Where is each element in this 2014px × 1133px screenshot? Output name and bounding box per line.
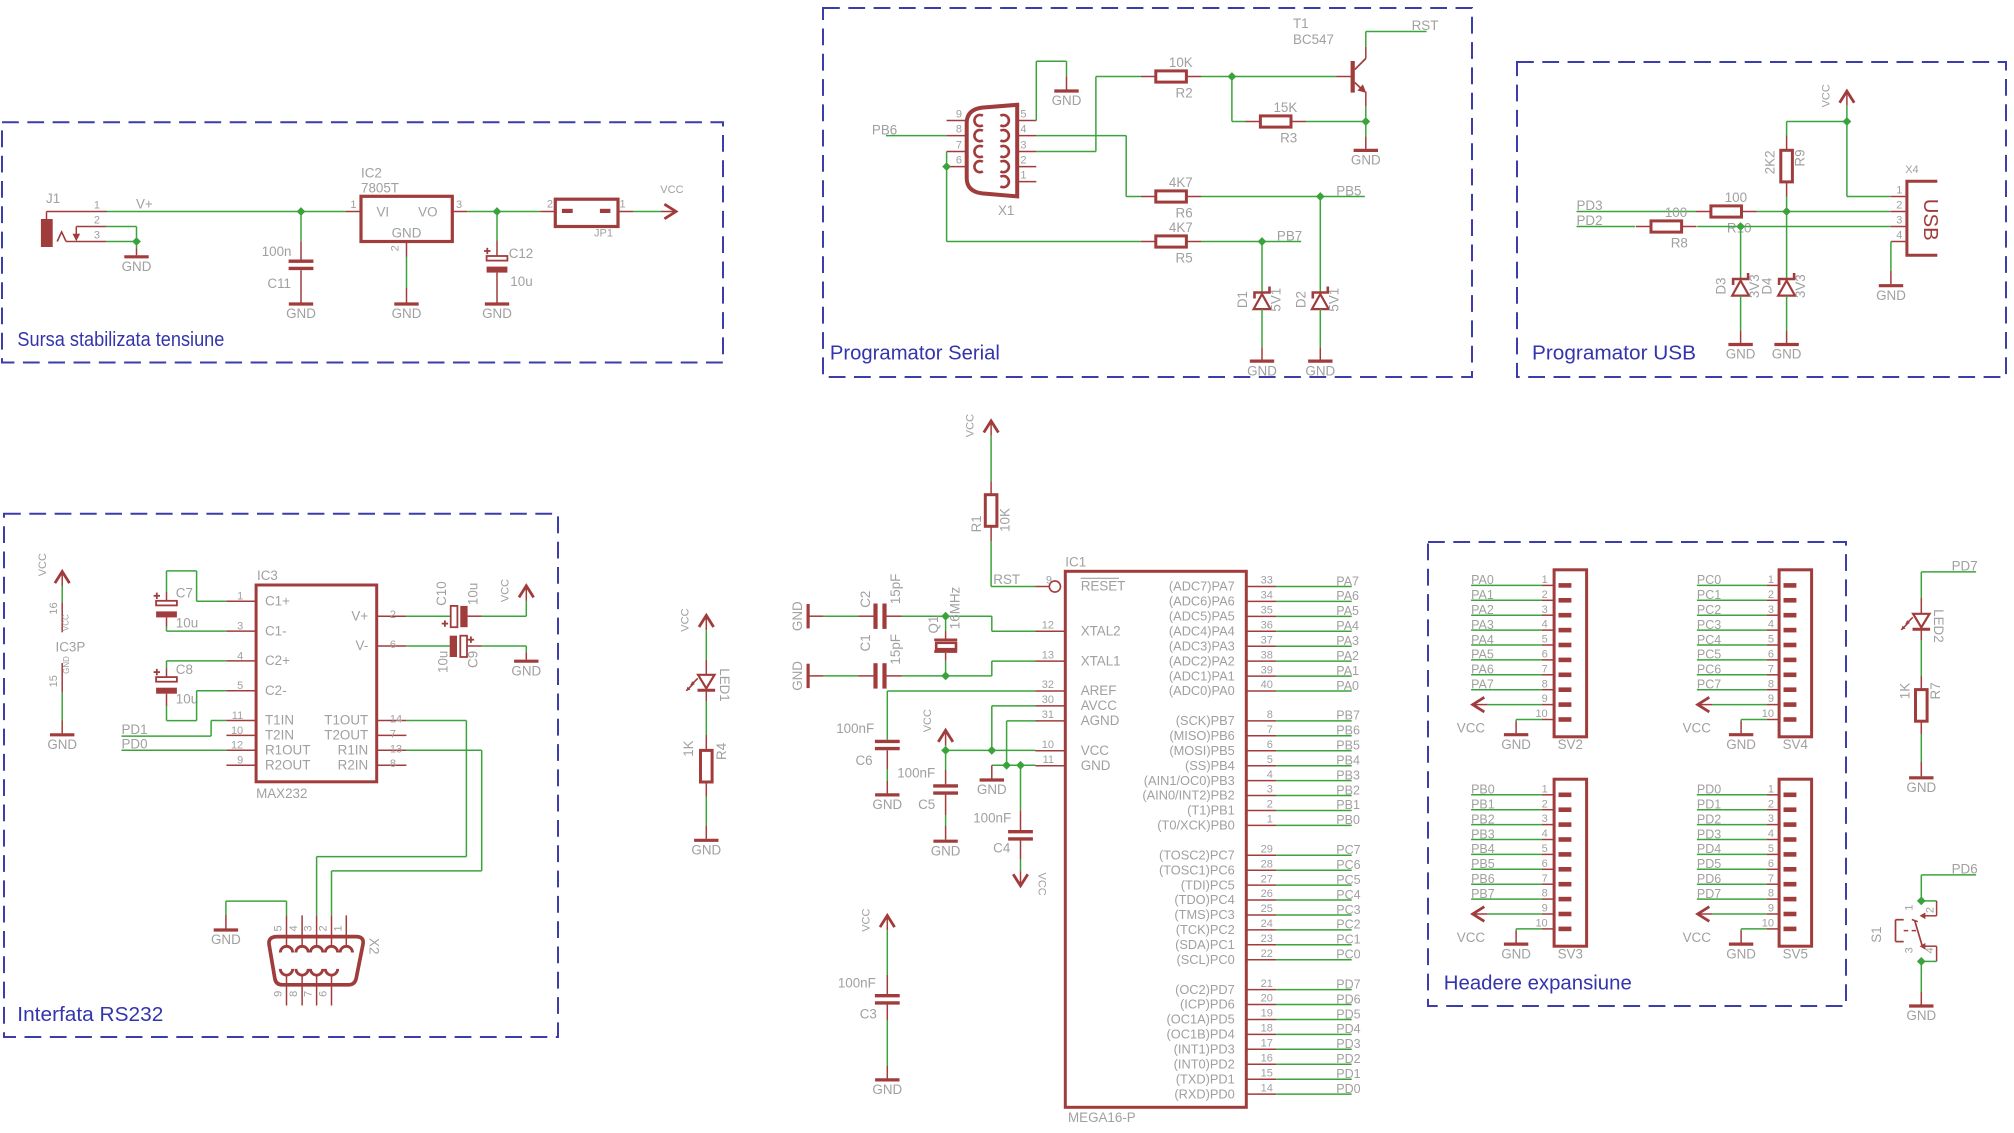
wire R9 top to VCC node (1787, 122, 1847, 137)
IC2 7805T voltage regulator (346, 166, 467, 252)
svg-text:3: 3 (1768, 813, 1774, 825)
svg-text:5: 5 (1267, 754, 1273, 766)
svg-text:PC2: PC2 (1336, 918, 1360, 932)
net label PA2 (IC1) (1336, 649, 1359, 663)
wire D2 to GND (1319, 309, 1321, 360)
wire PD2 to R8 (1577, 226, 1636, 228)
svg-text:C4: C4 (993, 840, 1011, 855)
junction PB7/D1 (1258, 237, 1267, 246)
svg-text:GND: GND (1501, 737, 1531, 752)
svg-text:15K: 15K (1273, 100, 1297, 115)
svg-text:SV4: SV4 (1783, 737, 1809, 752)
svg-text:PC0: PC0 (1336, 948, 1360, 962)
svg-text:15pF: 15pF (888, 634, 903, 665)
svg-text:23: 23 (1261, 933, 1273, 945)
svg-text:(ADC3)PA3: (ADC3)PA3 (1169, 638, 1235, 653)
svg-text:100nF: 100nF (836, 721, 874, 736)
svg-text:GND: GND (1726, 737, 1756, 752)
svg-text:1: 1 (1768, 783, 1774, 795)
svg-text:Programator Serial: Programator Serial (830, 342, 1000, 365)
svg-text:PB0: PB0 (1336, 813, 1360, 827)
svg-text:D4: D4 (1760, 277, 1775, 295)
power VCC (R1 pullup) (965, 414, 999, 437)
svg-text:GND: GND (1906, 780, 1936, 795)
svg-text:PB5: PB5 (1336, 739, 1360, 753)
net label PB0 (SV3) (1471, 783, 1495, 797)
svg-text:6: 6 (390, 639, 396, 651)
svg-text:GND: GND (392, 225, 422, 240)
svg-text:PB2: PB2 (1471, 812, 1495, 826)
svg-text:R4: R4 (714, 742, 729, 760)
IC3P power symbol (37, 553, 85, 733)
svg-text:7: 7 (390, 728, 396, 740)
wire net PC4 (IC1) (1276, 899, 1352, 901)
svg-text:PB1: PB1 (1471, 798, 1495, 812)
svg-text:(TXD)PD1: (TXD)PD1 (1176, 1071, 1235, 1086)
svg-text:10: 10 (1042, 739, 1054, 751)
svg-text:4: 4 (1924, 947, 1936, 953)
svg-text:T2IN: T2IN (265, 728, 294, 743)
svg-text:3: 3 (303, 925, 315, 931)
wire PB6 to X1 pin8 (886, 135, 947, 137)
svg-text:VCC: VCC (500, 579, 512, 602)
svg-text:PB3: PB3 (1471, 827, 1495, 841)
svg-text:26: 26 (1261, 888, 1273, 900)
svg-text:C8: C8 (176, 662, 193, 677)
svg-text:PD5: PD5 (1697, 857, 1721, 871)
junction V+ / C11 (297, 207, 306, 216)
svg-text:VCC: VCC (37, 553, 49, 576)
svg-text:PD2: PD2 (1336, 1052, 1360, 1066)
diode D1 5V1 zener (1235, 287, 1283, 312)
net label PC3 (IC1) (1336, 903, 1360, 917)
svg-text:1: 1 (1267, 814, 1273, 826)
wire AVCC net (992, 706, 1036, 751)
svg-text:(ICP)PD6: (ICP)PD6 (1180, 997, 1235, 1012)
svg-text:R7: R7 (1928, 682, 1943, 699)
net label PD1 (122, 722, 148, 737)
svg-text:8: 8 (956, 124, 962, 136)
net label PB0 (IC1) (1336, 813, 1360, 827)
svg-text:3: 3 (456, 199, 462, 211)
ground GND (C2, rotated) (790, 601, 823, 631)
svg-text:(T1)PB1: (T1)PB1 (1187, 803, 1235, 818)
svg-text:9: 9 (1542, 693, 1548, 705)
ground GND (C5) (931, 841, 961, 858)
wire net PB3 (SV3) (1471, 839, 1542, 841)
svg-text:C10: C10 (434, 581, 449, 606)
svg-text:AREF: AREF (1081, 683, 1117, 698)
svg-text:S1: S1 (1869, 926, 1884, 942)
net label PC4 (SV4) (1697, 633, 1721, 647)
resistor R5 4K7 (1141, 220, 1202, 265)
svg-text:4: 4 (1020, 124, 1026, 136)
svg-text:R6: R6 (1176, 206, 1193, 221)
svg-text:8: 8 (1542, 678, 1548, 690)
svg-text:SV5: SV5 (1783, 947, 1808, 962)
ground GND (SV4) (1726, 722, 1756, 752)
section box: Programator Serial (823, 8, 1472, 377)
wire X2 pin5 to GND (226, 901, 287, 915)
svg-text:R2IN: R2IN (338, 757, 369, 772)
svg-text:VCC: VCC (1081, 743, 1110, 758)
svg-text:(TOSC1)PC6: (TOSC1)PC6 (1159, 862, 1235, 877)
svg-text:GND: GND (392, 306, 422, 321)
wire net PC7 (IC1) (1276, 854, 1352, 856)
connector J1 power jack (41, 191, 107, 247)
wire net PB4 (SV3) (1471, 853, 1542, 855)
svg-text:GND: GND (691, 843, 721, 858)
net label PC5 (IC1) (1336, 873, 1360, 887)
svg-text:(TCK)PC2: (TCK)PC2 (1176, 922, 1235, 937)
svg-text:PC6: PC6 (1336, 858, 1360, 872)
net label PD5 (SV5) (1697, 857, 1721, 871)
svg-text:PC0: PC0 (1697, 573, 1721, 587)
svg-text:PB6: PB6 (1336, 724, 1360, 738)
wire R3 to emitter junction (1306, 121, 1366, 123)
svg-text:GND: GND (931, 843, 961, 858)
svg-text:R1IN: R1IN (338, 743, 369, 758)
net label PA7 (SV2) (1471, 678, 1494, 692)
wire T1 emitter to GND (1365, 106, 1367, 136)
svg-text:3: 3 (1542, 813, 1548, 825)
svg-text:PD1: PD1 (1336, 1067, 1360, 1081)
svg-text:1: 1 (1542, 783, 1548, 795)
wire net PC0 (SV4) (1697, 584, 1767, 586)
svg-text:C3: C3 (860, 1007, 877, 1022)
svg-text:MAX232: MAX232 (256, 786, 307, 801)
svg-text:7: 7 (1267, 724, 1273, 736)
svg-text:17: 17 (1261, 1038, 1273, 1050)
net label PB6 (872, 122, 897, 137)
wire R9 bottom to PD3 junction (1786, 196, 1788, 211)
ground GND (D4) (1772, 345, 1802, 362)
svg-text:2: 2 (1924, 907, 1936, 913)
svg-text:VO: VO (418, 205, 437, 220)
svg-text:PC3: PC3 (1336, 903, 1360, 917)
wire R6 to PB5 (1201, 196, 1364, 198)
svg-text:PD5: PD5 (1336, 1007, 1360, 1021)
net label PC5 (SV4) (1697, 648, 1721, 662)
svg-text:(SDA)PC1: (SDA)PC1 (1175, 937, 1235, 952)
svg-text:PB3: PB3 (1336, 768, 1360, 782)
net label PD4 (SV5) (1697, 842, 1721, 856)
junction crystal bottom (941, 672, 950, 681)
net label PB3 (SV3) (1471, 827, 1495, 841)
net label PD7 (IC1) (1336, 977, 1360, 991)
capacitor C12 10u (484, 212, 533, 303)
svg-text:PA2: PA2 (1336, 649, 1359, 663)
svg-text:7: 7 (1542, 663, 1548, 675)
svg-text:12: 12 (231, 740, 243, 752)
svg-text:16: 16 (1261, 1053, 1273, 1065)
svg-text:6: 6 (1768, 858, 1774, 870)
wire XTAL1 net (946, 661, 1036, 676)
svg-text:GND: GND (977, 782, 1007, 797)
svg-text:T1IN: T1IN (265, 713, 294, 728)
svg-text:PD3: PD3 (1697, 827, 1721, 841)
junction VCC/AVCC (987, 746, 996, 755)
svg-text:V+: V+ (351, 608, 368, 623)
ground GND (SV2) (1501, 722, 1531, 752)
svg-text:(AIN0/INT2)PB2: (AIN0/INT2)PB2 (1142, 788, 1234, 803)
net label PD6 (IC1) (1336, 992, 1360, 1006)
svg-text:5: 5 (273, 925, 285, 931)
svg-text:8: 8 (288, 991, 300, 997)
svg-text:3: 3 (1020, 140, 1026, 152)
diode D4 3V3 zener (1760, 273, 1808, 298)
transistor T1 BC547 (1293, 16, 1366, 106)
net label PB7 (SV3) (1471, 887, 1495, 901)
svg-text:PD1: PD1 (122, 722, 148, 737)
svg-text:GND: GND (790, 661, 805, 691)
svg-text:GND: GND (1501, 946, 1531, 961)
svg-text:IC3P: IC3P (56, 639, 86, 654)
svg-text:(AIN1/OC0)PB3: (AIN1/OC0)PB3 (1144, 773, 1235, 788)
net label PB2 (IC1) (1336, 783, 1360, 797)
svg-text:10u: 10u (176, 615, 198, 630)
LED LED2 (1901, 598, 1945, 643)
svg-text:X1: X1 (998, 203, 1014, 218)
svg-text:PB7: PB7 (1336, 709, 1360, 723)
svg-text:V+: V+ (136, 197, 153, 212)
svg-text:VCC: VCC (922, 709, 934, 732)
net label PB4 (SV3) (1471, 842, 1495, 856)
svg-text:GND: GND (1876, 288, 1906, 303)
svg-text:2: 2 (318, 925, 330, 931)
svg-text:100: 100 (1725, 190, 1747, 205)
svg-text:10: 10 (1535, 918, 1547, 930)
svg-text:7: 7 (303, 991, 315, 997)
net label PD6 (SV5) (1697, 872, 1721, 886)
wire net PB7 (IC1) (1276, 720, 1352, 722)
svg-text:PA0: PA0 (1336, 679, 1359, 693)
svg-text:37: 37 (1261, 634, 1273, 646)
svg-text:2: 2 (547, 199, 553, 211)
svg-text:IC3: IC3 (257, 568, 278, 583)
svg-text:(ADC7)PA7: (ADC7)PA7 (1169, 579, 1235, 594)
svg-text:13: 13 (1042, 649, 1054, 661)
wire to D2 (1319, 197, 1321, 293)
svg-text:PD2: PD2 (1697, 812, 1721, 826)
net label PA2 (SV2) (1471, 603, 1494, 617)
svg-text:2K2: 2K2 (1763, 150, 1778, 174)
wire GND (SV4 pin10) (1741, 720, 1767, 722)
svg-text:27: 27 (1261, 873, 1273, 885)
wire AGND net (1007, 721, 1036, 765)
connector X1 DB9 (947, 105, 1037, 218)
wire VCC to R1 (990, 436, 992, 495)
wire PD1 to T1IN (122, 721, 227, 737)
svg-text:GND: GND (1081, 758, 1111, 773)
svg-text:14: 14 (1261, 1082, 1273, 1094)
svg-text:LED2: LED2 (1931, 609, 1946, 643)
power VCC (SV2 pin9) (1457, 697, 1542, 735)
svg-text:3: 3 (1542, 604, 1548, 616)
svg-text:C1: C1 (858, 634, 873, 651)
svg-text:2: 2 (390, 609, 396, 621)
junction PB5/D2 (1316, 192, 1325, 201)
svg-text:PC4: PC4 (1697, 633, 1721, 647)
wire J1 pin2 to GND node (106, 227, 136, 242)
svg-text:5: 5 (237, 680, 243, 692)
section box: Interfata RS232 (4, 514, 558, 1037)
svg-text:1: 1 (1768, 574, 1774, 586)
wire junction to JP1 (497, 211, 555, 213)
wire R4 to GND (705, 782, 707, 839)
wire net PD2 (SV5) (1697, 824, 1767, 826)
wire USB pin4 to GND (1890, 242, 1892, 285)
svg-text:4: 4 (1768, 619, 1774, 631)
junction crystal top (941, 612, 950, 621)
section box: Programator USB (1517, 62, 2006, 377)
net label PA3 (IC1) (1336, 634, 1359, 648)
svg-text:(MISO)PB6: (MISO)PB6 (1169, 728, 1234, 743)
wire GND (SV5 pin10) (1741, 929, 1767, 931)
svg-text:2: 2 (1542, 589, 1548, 601)
svg-text:Programator USB: Programator USB (1532, 342, 1696, 365)
svg-text:16MHz: 16MHz (947, 586, 962, 629)
svg-text:10u: 10u (466, 583, 481, 605)
power VCC (SV5 pin9) (1683, 907, 1767, 945)
wire net PB7 (SV3) (1471, 898, 1542, 900)
capacitor C1 15pF (823, 634, 945, 689)
junction emitter/R3 (1361, 117, 1370, 126)
junction VO / C12 (493, 207, 502, 216)
capacitor C11 100n (262, 212, 314, 303)
svg-text:(TDI)PC5: (TDI)PC5 (1181, 877, 1235, 892)
svg-text:8: 8 (390, 758, 396, 770)
net label PD5 (IC1) (1336, 1007, 1360, 1021)
svg-text:(ADC0)PA0: (ADC0)PA0 (1169, 683, 1235, 698)
svg-text:9: 9 (1542, 903, 1548, 915)
junction PD3 net (1782, 207, 1791, 216)
svg-text:AGND: AGND (1081, 713, 1120, 728)
svg-text:GND: GND (1772, 347, 1802, 362)
svg-text:7805T: 7805T (361, 181, 399, 196)
wire to D3 (1740, 227, 1742, 280)
svg-text:(TMS)PC3: (TMS)PC3 (1174, 907, 1234, 922)
svg-text:T1OUT: T1OUT (324, 713, 368, 728)
svg-text:XTAL2: XTAL2 (1081, 624, 1121, 639)
svg-text:19: 19 (1261, 1008, 1273, 1020)
svg-text:(SCL)PC0: (SCL)PC0 (1176, 952, 1234, 967)
svg-text:RST: RST (993, 572, 1020, 587)
wire GND (SV3 pin10) (1516, 929, 1542, 931)
svg-text:40: 40 (1261, 679, 1273, 691)
svg-text:1K: 1K (1898, 683, 1913, 699)
svg-text:9: 9 (1768, 693, 1774, 705)
ground GND (R7) (1906, 778, 1936, 795)
wire net PB5 (SV3) (1471, 868, 1542, 870)
svg-text:2: 2 (1768, 798, 1774, 810)
power VCC (LED1) (680, 608, 714, 631)
wire LED2 to R7 (1920, 631, 1922, 691)
svg-text:PA4: PA4 (1336, 619, 1359, 633)
net label PD1 (IC1) (1336, 1067, 1360, 1081)
net label PA5 (IC1) (1336, 604, 1359, 618)
svg-text:GND: GND (1052, 93, 1082, 108)
svg-text:4K7: 4K7 (1169, 220, 1193, 235)
svg-text:Q1: Q1 (926, 616, 941, 634)
wire R1 to RESET pin (991, 526, 1035, 586)
wire to D1 (1261, 242, 1263, 293)
svg-text:14: 14 (390, 714, 402, 726)
svg-text:PA3: PA3 (1471, 618, 1494, 632)
svg-text:Sursa stabilizata tensiune: Sursa stabilizata tensiune (17, 328, 224, 351)
net label PC0 (IC1) (1336, 948, 1360, 962)
connector X4 USB (1891, 164, 1941, 255)
net label PD3 (1577, 198, 1603, 213)
svg-text:PC7: PC7 (1697, 678, 1721, 692)
svg-text:JP1: JP1 (594, 227, 613, 239)
wire net PA1 (IC1) (1276, 675, 1352, 677)
svg-text:VI: VI (377, 205, 390, 220)
svg-text:1: 1 (350, 199, 356, 211)
wire net PD5 (IC1) (1276, 1019, 1352, 1021)
resistor R8 100 (1636, 205, 1697, 250)
wire VO to junction (467, 211, 497, 213)
svg-text:C2-: C2- (265, 683, 287, 698)
wire net PA1 (SV2) (1471, 599, 1542, 601)
svg-text:C2+: C2+ (265, 653, 290, 668)
wire net PA3 (SV2) (1471, 629, 1542, 631)
svg-text:C9: C9 (465, 651, 480, 668)
svg-text:28: 28 (1261, 858, 1273, 870)
svg-text:6: 6 (1542, 649, 1548, 661)
ground GND (IC2) (392, 304, 422, 321)
net label PD6 (1952, 862, 1978, 877)
svg-text:T2OUT: T2OUT (324, 728, 368, 743)
svg-text:1: 1 (94, 200, 100, 212)
svg-text:(TDO)PC4: (TDO)PC4 (1174, 892, 1234, 907)
ground GND (C3) (872, 1080, 902, 1097)
wire C7 bottom to pin3 (167, 630, 227, 632)
net label PC4 (IC1) (1336, 888, 1360, 902)
svg-text:GND: GND (790, 601, 805, 631)
svg-text:PB7: PB7 (1277, 228, 1302, 243)
wire PD3 to R10 (1577, 211, 1697, 213)
svg-text:5: 5 (1768, 634, 1774, 646)
svg-text:C7: C7 (176, 586, 193, 601)
svg-text:PD1: PD1 (1697, 798, 1721, 812)
svg-text:J1: J1 (46, 191, 60, 206)
svg-text:PD7: PD7 (1336, 977, 1360, 991)
svg-text:C11: C11 (267, 276, 291, 291)
svg-text:(ADC5)PA5: (ADC5)PA5 (1169, 609, 1235, 624)
wire net V+ (107, 197, 346, 212)
capacitor C9 10u (406, 636, 482, 673)
wire net PD1 (IC1) (1276, 1078, 1352, 1080)
wire net PD7 (SV5) (1697, 898, 1767, 900)
svg-text:PA0: PA0 (1471, 573, 1494, 587)
crystal Q1 16MHz (926, 586, 963, 675)
svg-text:PD3: PD3 (1336, 1037, 1360, 1051)
wire net PD4 (IC1) (1276, 1033, 1352, 1035)
svg-text:PA1: PA1 (1471, 588, 1494, 602)
wire R8 to junction and USB pin3 (1697, 226, 1891, 228)
net label PC6 (IC1) (1336, 858, 1360, 872)
svg-text:PB4: PB4 (1471, 842, 1495, 856)
net label PD4 (IC1) (1336, 1022, 1360, 1036)
svg-text:(ADC2)PA2: (ADC2)PA2 (1169, 653, 1235, 668)
svg-text:10: 10 (1535, 708, 1547, 720)
svg-text:PB5: PB5 (1336, 183, 1361, 198)
wire net PC3 (IC1) (1276, 914, 1352, 916)
power VCC (SV4 pin9) (1683, 697, 1767, 735)
svg-text:PC1: PC1 (1697, 588, 1721, 602)
junction GND/C4 (1016, 761, 1025, 770)
